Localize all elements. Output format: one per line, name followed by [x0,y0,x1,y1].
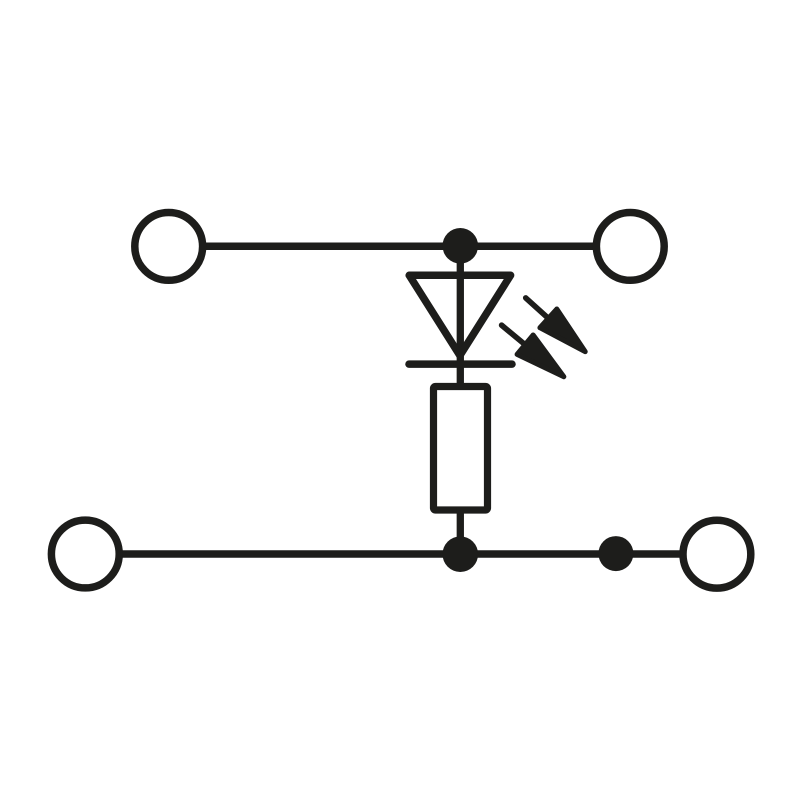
LED D1: emission arrow (upper) [517,289,593,361]
terminal circle (bottom right) [683,520,751,588]
terminal circle (top right) [596,213,664,281]
LED D1: emission arrow (lower) [494,316,572,387]
wire: resistor to bottom rail [457,508,464,554]
wire: top rail from terminal 1 to terminal 2 [169,242,630,250]
LED D1: diode triangle (anode, pointing down) [409,275,510,355]
node: junction dot on top rail [443,228,479,264]
resistor R1 (series resistor box) [434,387,488,511]
node: junction dot on bottom rail [443,536,479,572]
wire: vertical drop from top junction through LED to resistor [457,246,464,390]
LED D1: cathode bar [409,360,512,368]
terminal circle (top left) [135,213,203,281]
terminal circle (bottom left) [51,520,119,588]
node: connection dot near bottom right terminal [598,536,633,571]
wire: bottom rail from terminal 3 to terminal 4 [85,550,717,558]
